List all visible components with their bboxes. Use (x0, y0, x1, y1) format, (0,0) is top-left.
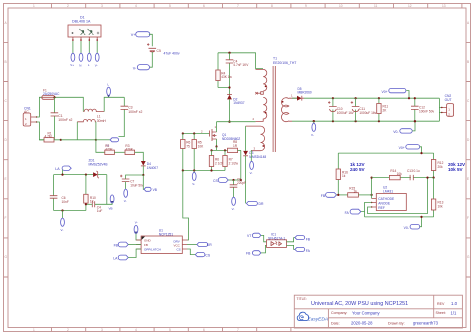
junction gate R6g (182, 132, 184, 134)
optocoupler IC1 (267, 240, 287, 248)
net flag CS U1 (187, 249, 211, 257)
frame ticks right (466, 42, 471, 277)
wire bottom rail to junction (61, 139, 96, 141)
C12 label (419, 106, 434, 114)
wire aux bottom to flag (250, 150, 252, 161)
svg-text:C13: C13 (407, 169, 413, 173)
svg-text:10k: 10k (397, 172, 403, 176)
svg-text:2A/250VAC: 2A/250VAC (43, 92, 60, 96)
R13 label (438, 201, 444, 209)
svg-text:V-: V- (124, 199, 127, 203)
R11 label (383, 105, 389, 113)
capacitor C4 snubber (226, 53, 234, 88)
R15 label (349, 186, 357, 193)
svg-text:Date:: Date: (331, 321, 340, 325)
net flag DR right (246, 201, 264, 206)
svg-text:C5: C5 (157, 49, 161, 53)
note text right (448, 162, 466, 172)
net flag V- C8 (232, 197, 236, 211)
wire D4 to C7 (126, 175, 144, 179)
svg-text:B: B (5, 60, 7, 64)
mosfet Q1 (210, 122, 217, 147)
TL431 bottom rail (365, 212, 434, 217)
svg-text:OPP/LATCH: OPP/LATCH (144, 247, 161, 251)
R5 label (198, 141, 205, 149)
svg-text:FA: FA (306, 249, 311, 253)
svg-text:6: 6 (203, 328, 205, 332)
C6 label (62, 196, 69, 204)
capacitor C10 (328, 98, 337, 121)
svg-text:V-: V- (192, 182, 195, 186)
capacitor C4b (86, 201, 95, 207)
svg-text:1k: 1k (354, 189, 358, 193)
svg-text:43K 1w: 43K 1w (221, 75, 232, 79)
svg-text:V-: V- (250, 171, 253, 175)
net flag V- below C7 (124, 189, 128, 203)
svg-text:V-: V- (95, 64, 98, 68)
wire D3 down to VCC line (245, 156, 247, 204)
svg-text:1: 1 (33, 4, 35, 8)
net flag V0- top (393, 121, 415, 134)
svg-text:FB: FB (114, 243, 119, 247)
svg-text:V-: V- (61, 228, 64, 232)
svg-text:DR: DR (207, 243, 212, 247)
R14 label (390, 169, 402, 176)
net flag LA U1 (113, 249, 141, 260)
zener ZD1 (93, 171, 107, 178)
R10 label (90, 196, 96, 204)
junction bottom rail left (60, 139, 62, 141)
svg-text:Universal AC, 20W PSU using NC: Universal AC, 20W PSU using NCP1251 (311, 301, 408, 307)
capacitor C7 (120, 175, 129, 189)
svg-text:CS: CS (213, 179, 218, 183)
capacitor C6 (50, 175, 58, 211)
R4 label (221, 71, 232, 79)
svg-text:10k 5V: 10k 5V (448, 167, 463, 172)
net flag FA anode (345, 203, 372, 215)
svg-text:100nF x2: 100nF x2 (128, 110, 142, 114)
drain rail wire (217, 121, 256, 123)
resistor R6g (181, 134, 185, 171)
svg-text:4: 4 (135, 328, 137, 332)
connector CN1 (23, 113, 37, 126)
wire bridge pin4 (96, 41, 98, 53)
resistor R5 (192, 134, 196, 171)
svg-text:REF: REF (378, 206, 385, 210)
resistor R8 (228, 148, 241, 152)
junction R16 bottom (337, 194, 339, 196)
D1 label (72, 15, 91, 23)
svg-text:V0+: V0+ (399, 146, 405, 150)
transformer T1 aux winding (246, 126, 265, 151)
svg-text:ANODE: ANODE (378, 201, 391, 205)
svg-text:1uF: 1uF (97, 209, 103, 213)
transformer T1 label (273, 57, 296, 65)
capacitor C8 (230, 180, 238, 198)
bridge rectifier D1 (68, 25, 101, 37)
wire gnd rail to V- flag (62, 211, 64, 219)
D4 label (147, 162, 158, 170)
R12 label (438, 161, 444, 169)
svg-text:1: 1 (33, 328, 35, 332)
svg-text:100nF x2: 100nF x2 (58, 118, 72, 122)
junction cathode node (371, 194, 373, 196)
wire rails to CN2 (439, 98, 441, 121)
net flag N (107, 138, 119, 148)
gnd rail under sense (183, 170, 225, 172)
R8 label (233, 140, 238, 148)
capacitor C12 (411, 97, 419, 122)
wire F1 to choke (top rail) (55, 97, 84, 111)
svg-text:LA: LA (55, 167, 60, 171)
C8 label (237, 177, 246, 185)
svg-text:SFH617A-1: SFH617A-1 (268, 236, 285, 240)
note text left (350, 162, 365, 172)
svg-text:Company:: Company: (331, 311, 347, 315)
net flag FA opto right (287, 245, 311, 253)
svg-text:LM431: LM431 (383, 189, 393, 193)
svg-text:5: 5 (169, 4, 171, 8)
net flag V0+ TL431 (399, 145, 422, 154)
net flag V- above U1 (134, 221, 141, 240)
D2 label (233, 97, 244, 105)
svg-text:R14: R14 (390, 169, 396, 173)
transformer T1 primary winding B (253, 97, 267, 121)
junction gnd rail R5 (193, 169, 195, 171)
svg-text:MMSZ52V4B: MMSZ52V4B (89, 162, 108, 166)
svg-text:AC: AC (24, 110, 29, 114)
junction CS node (240, 179, 242, 181)
junction R11 bottom (378, 120, 380, 122)
svg-text:Your Company: Your Company (352, 310, 380, 315)
junction sec gnd (313, 120, 315, 122)
net flag V- sense (192, 171, 196, 187)
capacitor C11 (351, 98, 360, 121)
C4 label (233, 59, 249, 67)
wire bridge pin1 (72, 41, 74, 53)
diode D2 (227, 95, 232, 122)
svg-text:MBR2060: MBR2060 (298, 91, 312, 95)
svg-text:FB: FB (246, 252, 251, 256)
net flag V0+ top (382, 88, 410, 98)
EasyEDA logo (297, 312, 328, 322)
net flag V+ at C5 (131, 32, 150, 37)
L1 label (97, 115, 107, 123)
svg-text:V0-: V0- (404, 226, 409, 230)
junction R11 top (378, 97, 380, 99)
svg-text:10K: 10K (198, 144, 205, 148)
svg-text:FB: FB (321, 194, 326, 198)
svg-text:2: 2 (67, 328, 69, 332)
svg-text:47uF 400v: 47uF 400v (164, 51, 180, 55)
junction gnd rail VCC cross (182, 169, 184, 171)
junction gnd rail flag (61, 209, 63, 211)
svg-text:V0-: V0- (393, 130, 398, 134)
svg-text:220pF: 220pF (237, 181, 246, 185)
junction LA-R10 (85, 174, 87, 176)
net flag DR U1 (187, 242, 212, 247)
svg-text:FA: FA (345, 211, 350, 215)
net flag L bridge (87, 53, 91, 67)
source rail (212, 147, 228, 151)
svg-text:1000uF 16v: 1000uF 16v (337, 111, 354, 115)
C7 label (130, 180, 144, 188)
TL431 top rail (338, 152, 433, 154)
wire CN1 pin2 down (37, 122, 44, 140)
title block (294, 295, 462, 328)
svg-text:2: 2 (67, 4, 69, 8)
junction bottom rail mid (95, 139, 97, 141)
svg-text:B: B (467, 60, 469, 64)
VCC wire long (183, 171, 189, 241)
C13 label (407, 169, 420, 173)
svg-text:2 1/2w: 2 1/2w (229, 161, 239, 165)
R6 sense label (215, 158, 225, 166)
svg-text:GND: GND (144, 238, 152, 242)
R1 label (45, 132, 52, 139)
D5 label (298, 87, 312, 95)
svg-text:0.1u: 0.1u (414, 169, 420, 173)
resistor R10 (84, 175, 88, 211)
transformer T1 primary winding A (256, 69, 267, 91)
frame ticks bottom (52, 328, 291, 332)
resistor R2 (105, 150, 125, 154)
frame ticks top (52, 4, 462, 9)
wire gnd rail LA cluster (54, 210, 86, 212)
svg-text:1/1: 1/1 (451, 310, 457, 315)
C1 label (58, 114, 72, 122)
svg-text:FB: FB (306, 237, 311, 241)
svg-text:NCP1251: NCP1251 (159, 232, 173, 236)
connector CN2 (441, 104, 454, 117)
wire V+ to C5 (149, 34, 152, 46)
svg-text:10nF: 10nF (62, 200, 69, 204)
R3 label (125, 144, 133, 151)
svg-text:30mH: 30mH (97, 119, 107, 123)
diode D3 (243, 151, 248, 156)
resistor R3 (125, 150, 143, 161)
transformer T1 primary tap pin (255, 92, 263, 95)
U2 label (383, 186, 393, 194)
svg-text:240 5V: 240 5V (350, 167, 365, 172)
junction C10 top (332, 97, 334, 99)
net flag L on top rail (107, 82, 111, 97)
net flag V+ bridge (70, 53, 75, 67)
net flag V- at C5 (133, 65, 150, 71)
net flag above C4b (107, 195, 114, 211)
svg-text:greenearth73: greenearth73 (413, 321, 439, 326)
R7 sense label (229, 158, 239, 166)
svg-text:F: F (5, 216, 7, 220)
resistor R11 (377, 98, 381, 121)
net flag V- aux (250, 161, 254, 175)
wire CN1 pin1 to F1 (37, 97, 42, 117)
junction snubber top (228, 52, 230, 54)
net flag N bridge (79, 53, 83, 67)
svg-text:8: 8 (271, 4, 273, 8)
svg-text:20k: 20k (438, 165, 444, 169)
C3 label (128, 106, 142, 114)
resistor R4 (216, 53, 220, 88)
choke L1 winding B (77, 119, 96, 139)
diode D5 (292, 96, 439, 101)
svg-text:V-: V- (232, 207, 235, 211)
junction LA-drop (61, 174, 63, 176)
wire bridge pin2 (80, 41, 82, 53)
wire junction down to R2 (96, 140, 105, 153)
svg-text:Sheet:: Sheet: (436, 311, 446, 315)
svg-text:1N4007: 1N4007 (147, 166, 158, 170)
svg-text:EE20/106_THT: EE20/106_THT (273, 61, 296, 65)
svg-text:3: 3 (101, 328, 103, 332)
resistor R1 (39, 138, 60, 142)
net flag V- LA cluster (61, 218, 65, 232)
IC1 label (268, 233, 285, 241)
svg-text:DBL406 1A: DBL406 1A (72, 20, 91, 24)
svg-text:2020-05-28: 2020-05-28 (351, 321, 373, 326)
U2 pin names (378, 197, 395, 210)
junction C11 bottom (355, 120, 357, 122)
junction comp branch left (371, 177, 373, 179)
svg-text:VT: VT (247, 234, 251, 238)
junction C10 bottom (332, 120, 334, 122)
svg-text:LA: LA (113, 256, 118, 260)
svg-text:10uF 50v: 10uF 50v (130, 183, 144, 187)
wire junction to N flag (96, 139, 110, 141)
net flag FB U1 (114, 242, 141, 247)
resistor R7 sense (223, 150, 227, 170)
wire cathode node to pin (371, 178, 373, 199)
svg-text:MMSD4148: MMSD4148 (249, 155, 266, 159)
net flag LA (55, 166, 71, 175)
secondary bottom rail (292, 120, 439, 122)
U1 label (159, 229, 173, 237)
junction gate R5 (193, 132, 195, 134)
wire D4 junction to VB flag (142, 175, 145, 189)
junction C11 top (355, 97, 357, 99)
junction snubber bottom (228, 86, 230, 88)
resistor R13 (431, 178, 435, 217)
net flag V- bridge (95, 53, 99, 67)
svg-text:N: N (79, 64, 81, 68)
C4b label (97, 206, 103, 214)
transformer T1 core (273, 66, 275, 152)
C5 label (157, 49, 180, 55)
net flag VB (144, 187, 157, 192)
svg-text:DR: DR (259, 202, 264, 206)
D3 label (249, 151, 266, 159)
resistor R14 (389, 175, 400, 179)
svg-text:4.7M: 4.7M (45, 135, 52, 139)
svg-text:1k: 1k (342, 174, 346, 178)
wire C5 to V- (150, 52, 153, 67)
CN2 label (445, 94, 452, 102)
svg-text:EasyEDA: EasyEDA (308, 316, 329, 322)
junction C8 (232, 179, 234, 181)
svg-text:75: 75 (186, 144, 190, 148)
svg-text:E: E (5, 177, 7, 181)
junction D4-C7 (142, 174, 144, 176)
svg-text:TITLE:: TITLE: (297, 297, 307, 301)
net flag FB opto left (246, 245, 267, 255)
diode D4 (141, 161, 146, 175)
svg-text:470K: 470K (105, 148, 113, 152)
REF wrap wire (368, 178, 428, 214)
svg-text:10: 10 (339, 4, 343, 8)
svg-text:FB: FB (144, 243, 148, 247)
svg-text:CS: CS (177, 247, 181, 251)
resistor R12 (431, 153, 435, 178)
svg-text:100nF 50v: 100nF 50v (419, 109, 434, 113)
junction V0+ TL431 (420, 152, 422, 154)
svg-text:4.7nF 1KV: 4.7nF 1KV (233, 63, 249, 67)
svg-text:CATHODE: CATHODE (378, 197, 395, 201)
svg-text:12: 12 (408, 4, 412, 8)
CS stub wire (228, 179, 241, 181)
junction gnd rail R6 (210, 169, 212, 171)
junction V0- rail (420, 216, 422, 218)
capacitor C13 (410, 175, 413, 180)
svg-text:1000uF 16v: 1000uF 16v (359, 111, 376, 115)
svg-text:V-: V- (311, 133, 314, 137)
choke L1 winding A (83, 97, 124, 111)
IC U1 NCP1251 (136, 236, 187, 254)
frame ticks left (4, 42, 9, 277)
svg-text:VB: VB (109, 207, 113, 211)
svg-text:V+: V+ (70, 63, 74, 67)
wire LA to ZD1 (54, 174, 94, 176)
svg-text:6: 6 (203, 4, 205, 8)
capacitor C5 (147, 43, 156, 52)
junction V0+ (408, 97, 410, 99)
net flag V0- TL431 (404, 217, 422, 230)
resistor R16 (336, 153, 340, 195)
CS vertical wire (240, 150, 242, 180)
Q1 label (222, 133, 240, 141)
net flag CS (213, 178, 228, 183)
comp branch wire (372, 177, 434, 179)
svg-text:V0+: V0+ (382, 90, 388, 94)
svg-text:CS: CS (205, 253, 210, 257)
svg-text:3: 3 (101, 4, 103, 8)
svg-text:1.0: 1.0 (451, 301, 458, 306)
net flag V0- sec gnd (311, 121, 316, 137)
capacitor C3 (119, 97, 129, 136)
svg-text:5: 5 (169, 328, 171, 332)
svg-text:470K: 470K (125, 148, 133, 152)
svg-text:VB: VB (153, 188, 157, 192)
svg-text:F: F (467, 216, 469, 220)
net flag FB TL431 (321, 192, 337, 198)
svg-text:1R: 1R (233, 144, 238, 148)
junction source right (224, 149, 226, 151)
wire bridge pin3 (88, 41, 90, 53)
junction comp branch right (426, 177, 428, 179)
junction F1-C1 (53, 96, 55, 98)
svg-text:4: 4 (135, 4, 137, 8)
svg-text:9: 9 (305, 4, 307, 8)
snubber top rail (218, 53, 263, 69)
svg-text:7: 7 (237, 328, 239, 332)
svg-text:NDD05N60Z: NDD05N60Z (222, 137, 240, 141)
IC U2 LM431 (371, 194, 406, 211)
U1 pin names (144, 238, 181, 251)
wire FB to R15 (337, 194, 348, 196)
svg-text:10k: 10k (438, 204, 444, 208)
svg-text:11: 11 (374, 4, 378, 8)
R16 label (342, 170, 348, 178)
wire aux top to D3 (245, 126, 247, 151)
